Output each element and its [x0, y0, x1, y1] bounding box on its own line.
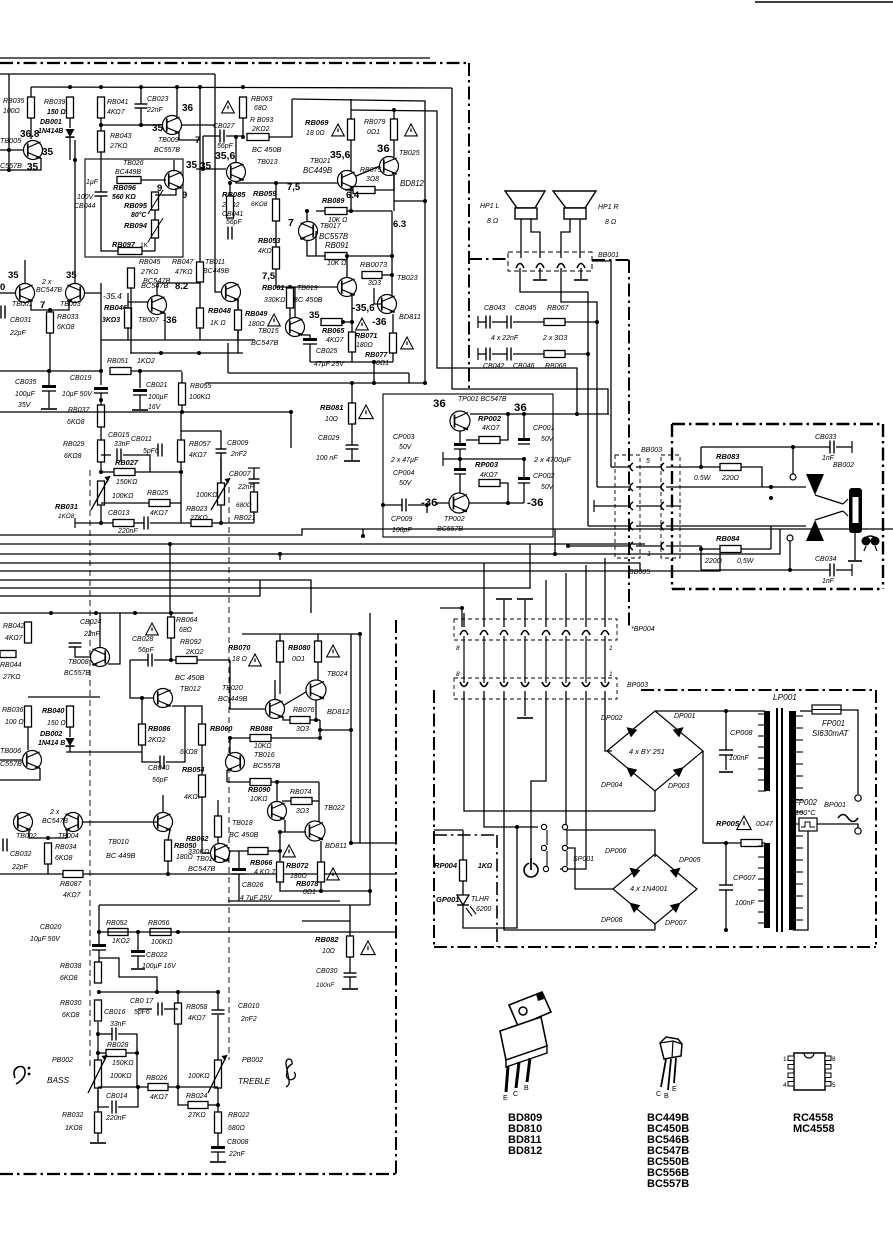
- transistor TB024: [306, 680, 326, 700]
- wire CB021 top: [139, 372, 141, 388]
- label RB039: [44, 99, 65, 106]
- svg-text:RB084: RB084: [716, 534, 740, 543]
- wire cb008 b: [217, 1152, 219, 1161]
- junction rb079 rail: [392, 108, 396, 112]
- svg-text:35: 35: [309, 310, 320, 321]
- label BC547B tb014: [188, 864, 216, 873]
- resistor RB063: [240, 97, 247, 118]
- wire RB055 top: [181, 372, 183, 383]
- wire bridge1 bot: [654, 791, 656, 811]
- ground gnd CB035: [41, 408, 57, 410]
- connector BB001: [508, 252, 592, 271]
- label CP009: [391, 516, 412, 523]
- warning triangle warning rb077: [401, 337, 414, 349]
- label TO-92 pins: [656, 1086, 677, 1100]
- capacitor CB035: [42, 385, 56, 391]
- label 9 b: [182, 190, 187, 201]
- svg-text:BP003: BP003: [627, 682, 648, 689]
- wire RB035 bot: [30, 118, 32, 139]
- label CP008 v: [729, 755, 749, 762]
- resistor RB055: [179, 383, 186, 405]
- wire spk R lead1: [561, 219, 570, 258]
- page edge top right: [755, 1, 893, 3]
- label RB097 val: [140, 242, 149, 249]
- label RB029: [63, 441, 84, 448]
- label RB049 v: [248, 321, 265, 328]
- label RB052 v: [112, 938, 130, 945]
- svg-text:220Ω: 220Ω: [721, 475, 740, 482]
- label 8.2: [175, 281, 188, 292]
- label RB059 v: [251, 201, 268, 208]
- junction rb059 top: [274, 181, 278, 185]
- svg-text:1KΩ: 1KΩ: [478, 863, 493, 870]
- capacitor CP008: [719, 750, 733, 755]
- wire tb019 col: [346, 256, 348, 277]
- wire bp004 up1: [463, 613, 465, 627]
- svg-text:35: 35: [186, 160, 198, 171]
- label RB033: [57, 314, 78, 321]
- wire tp001 em: [459, 431, 461, 443]
- resistor RB065: [321, 319, 342, 326]
- wire bb001 gnd4: [580, 268, 582, 279]
- svg-text:TB025: TB025: [399, 150, 420, 157]
- label 36.8: [20, 129, 40, 140]
- label DP007: [665, 920, 687, 927]
- wire rb026 l: [98, 1086, 148, 1088]
- wire DB001 bot: [69, 138, 71, 160]
- label SP001: [573, 856, 594, 863]
- wire tp002 caps: [459, 449, 461, 468]
- svg-text:TB006: TB006: [0, 747, 21, 755]
- wire cb033 drop: [792, 447, 794, 474]
- wire vert x215: [214, 74, 216, 125]
- svg-text:BD811: BD811: [325, 841, 347, 850]
- resistor RB071: [349, 332, 356, 352]
- svg-text:-35.4: -35.4: [103, 292, 122, 301]
- BB003 wires 3: [615, 505, 681, 507]
- BB003 pin pair 5: [630, 542, 664, 550]
- label RB093: [250, 117, 273, 124]
- label RB066: [250, 859, 273, 867]
- label CB023 value: [146, 107, 163, 114]
- label RB065 v: [322, 327, 345, 335]
- wire cb015 link: [101, 454, 111, 456]
- transistor TP002: [449, 493, 469, 513]
- svg-text:RB039: RB039: [44, 99, 65, 106]
- svg-text:RB044: RB044: [0, 662, 21, 669]
- wire rp004 t: [462, 830, 464, 860]
- resistor RB045: [128, 268, 135, 288]
- wire rb021 bot: [253, 512, 255, 523]
- connector pin BP003 pin 4: [521, 682, 529, 687]
- resistor RB096: [117, 177, 141, 184]
- label RB072: [286, 862, 308, 870]
- svg-text:BC557B: BC557B: [154, 147, 180, 154]
- wire bb003 in1: [611, 466, 615, 468]
- junction out bus: [289, 410, 293, 414]
- junction rb084 l: [699, 547, 703, 551]
- ground gnd cb022: [131, 968, 145, 970]
- junction tb019 em node: [350, 320, 354, 324]
- label RB0073: [360, 260, 388, 269]
- mains section divider h: [434, 834, 497, 836]
- svg-text:-35,6: -35,6: [352, 303, 375, 314]
- svg-text:2KΩ2: 2KΩ2: [185, 649, 204, 656]
- svg-text:RB050: RB050: [174, 842, 196, 850]
- junction rb090 r: [275, 780, 279, 784]
- wire supply line top: [0, 57, 430, 59]
- wire tb015 em: [303, 335, 310, 338]
- svg-text:CB028: CB028: [132, 636, 153, 643]
- label CB023: [147, 96, 168, 103]
- svg-text:CB008: CB008: [227, 1139, 248, 1146]
- label DP003: [668, 783, 689, 790]
- wire tb018 em node: [284, 820, 286, 832]
- svg-text:RB033: RB033: [57, 314, 78, 321]
- label CP007 v: [735, 900, 755, 907]
- wire tb014-rb066: [230, 850, 248, 852]
- wire cp008 b: [725, 755, 727, 770]
- svg-text:C557B: C557B: [0, 162, 22, 170]
- svg-text:PB002: PB002: [242, 1057, 263, 1064]
- wire tb014 em: [228, 851, 230, 861]
- label RB038: [60, 963, 81, 970]
- label CP004: [393, 470, 414, 477]
- svg-text:4KΩ7: 4KΩ7: [107, 109, 126, 116]
- label RB031: [55, 502, 78, 511]
- wire rb0073 r: [382, 274, 392, 276]
- ground gnd bp004 3: [496, 598, 512, 600]
- wire rb075 l: [345, 189, 353, 191]
- label TB005: [0, 137, 21, 145]
- wire rb046 b: [127, 328, 129, 340]
- tick mid gnd: [442, 452, 444, 466]
- wire cb033 row: [701, 446, 830, 448]
- wire bus 3: [0, 529, 780, 554]
- resistor RB038: [95, 962, 102, 983]
- svg-text:TB010: TB010: [108, 839, 129, 846]
- wire RB055 bot: [181, 405, 183, 412]
- label 100K treble: [188, 1073, 210, 1080]
- capacitor CB015: [117, 449, 121, 462]
- transistor TB015: [286, 318, 305, 337]
- svg-text:27KΩ: 27KΩ: [189, 515, 208, 522]
- svg-text:6KΩ8: 6KΩ8: [180, 749, 198, 756]
- ground gnd sleeve: [848, 560, 862, 562]
- label RB036: [2, 707, 23, 714]
- label RB025: [147, 490, 168, 497]
- junction bp feed: [460, 606, 464, 610]
- resistor RB088: [250, 735, 271, 742]
- svg-text:6KΩ8: 6KΩ8: [55, 855, 73, 862]
- wire tb007 col row: [157, 283, 200, 288]
- label RB082: [315, 935, 339, 944]
- label CB028 v: [138, 647, 154, 654]
- label 2x bc547b ch2: [49, 809, 60, 816]
- wire pw3: [504, 691, 655, 930]
- label DP001: [674, 713, 695, 720]
- wire bb003 in2: [597, 486, 615, 488]
- wire vert x200: [199, 87, 201, 283]
- label TB008: [68, 659, 89, 666]
- label CB011: [131, 436, 152, 443]
- label BB002: [833, 462, 854, 469]
- label HP1 L: [480, 203, 500, 210]
- svg-text:RB097: RB097: [112, 240, 136, 249]
- wire out bus down: [290, 412, 292, 448]
- wire rb059 top stub: [275, 183, 277, 199]
- svg-text:RB057: RB057: [189, 441, 211, 448]
- label FP002: [794, 798, 818, 807]
- label CB028: [132, 636, 153, 643]
- warning triangle warning rb069: [332, 124, 345, 136]
- wire rb076 r: [310, 719, 320, 721]
- junction row353 a: [159, 351, 163, 355]
- resistor RB039: [67, 97, 74, 118]
- svg-text:TB007: TB007: [138, 317, 160, 324]
- label RB047 v: [175, 269, 193, 276]
- wire rb022 b: [217, 1133, 219, 1146]
- label RB068: [545, 363, 566, 370]
- resistor RB028: [106, 1050, 126, 1057]
- wire cb014 l: [98, 1088, 109, 1107]
- connector pin BP003 pin 5: [542, 682, 550, 687]
- junction bus d: [553, 552, 557, 556]
- BB003 pin pair 3: [630, 502, 664, 510]
- svg-text:100KΩ: 100KΩ: [189, 394, 210, 401]
- resistor RP002: [479, 437, 500, 444]
- svg-text:4KΩ7: 4KΩ7: [482, 425, 501, 432]
- svg-text:35: 35: [42, 147, 54, 158]
- transistor TB017: [299, 222, 318, 241]
- wire tb019 em: [351, 295, 353, 332]
- svg-text:100pF: 100pF: [392, 527, 412, 534]
- label CB020: [40, 924, 61, 931]
- label 220 b: [704, 558, 723, 565]
- svg-text:100KΩ: 100KΩ: [110, 1073, 132, 1080]
- label RB042: [3, 623, 24, 630]
- label RB062 v: [188, 849, 209, 856]
- wire circle2 drop: [789, 541, 791, 570]
- wire rb078 bot: [320, 882, 322, 891]
- connector pin BP004 pin 6: [562, 631, 570, 636]
- svg-text:18 0Ω: 18 0Ω: [306, 130, 325, 137]
- svg-text:10KΩ: 10KΩ: [254, 743, 272, 750]
- label RB039 value: [47, 109, 66, 116]
- label BC449B tb021: [303, 166, 332, 175]
- label 2x3R3: [542, 335, 567, 342]
- svg-text:35,6: 35,6: [215, 151, 236, 162]
- thermal fuse FP002: [799, 818, 817, 831]
- label CP001 v: [541, 436, 555, 443]
- frame top border: [0, 62, 467, 64]
- junction bb003 5: [566, 544, 570, 548]
- wire bb003 stub3: [594, 505, 615, 507]
- wire tb023 base lead: [374, 288, 381, 304]
- wire BP004-BP003 col 1: [463, 636, 465, 683]
- svg-text:BC 449B: BC 449B: [218, 694, 248, 703]
- svg-text:0: 0: [0, 282, 5, 293]
- package DIP-8 body: [794, 1053, 825, 1090]
- label 6200: [476, 906, 491, 913]
- junction row353 b: [197, 351, 201, 355]
- wire TB007 row bot: [101, 339, 255, 341]
- wire RB035 top: [30, 87, 32, 97]
- svg-text:CB019: CB019: [70, 375, 91, 382]
- svg-text:CB035: CB035: [15, 379, 36, 386]
- junction rb056 l: [136, 930, 140, 934]
- svg-text:4KΩ7: 4KΩ7: [480, 472, 499, 479]
- svg-text:CP008: CP008: [730, 728, 753, 737]
- wire cb040 l: [142, 752, 160, 762]
- wire v701: [700, 447, 702, 467]
- svg-text:47KΩ: 47KΩ: [175, 269, 193, 276]
- label RB085 v: [221, 202, 240, 209]
- svg-text:2nF2: 2nF2: [230, 451, 247, 458]
- svg-text:DP003: DP003: [668, 783, 689, 790]
- label CB019: [70, 375, 91, 382]
- label -36 tb023: [372, 317, 387, 328]
- label RB054: [182, 766, 204, 774]
- wire BP004-BP003 col 4: [524, 636, 526, 683]
- svg-text:RB053: RB053: [258, 237, 280, 245]
- svg-text:RB031: RB031: [55, 502, 78, 511]
- label TB026: [123, 160, 144, 167]
- capacitor CP003: [454, 443, 466, 449]
- label RB038 v: [60, 975, 78, 982]
- switch SP001 contact c1: [543, 866, 548, 871]
- wire rb027 wires: [101, 471, 114, 473]
- wire rb070/rb080 feed: [242, 633, 360, 635]
- label BC450B tb019: [293, 295, 323, 304]
- wire spk L lead2: [531, 219, 540, 258]
- wire TB026 col: [173, 160, 175, 171]
- wire tone top rail: [99, 904, 370, 906]
- svg-text:BB002: BB002: [833, 462, 854, 469]
- wire TB001 col: [24, 260, 26, 283]
- wire cb016 l: [98, 1033, 112, 1035]
- label RP005: [716, 819, 740, 828]
- wire rb024 r: [208, 1104, 218, 1106]
- svg-text:RB059: RB059: [253, 189, 277, 198]
- svg-text:DP007: DP007: [665, 920, 687, 927]
- wire rb084 l: [681, 546, 720, 549]
- wire rb083 l: [681, 466, 720, 468]
- wire fp002 down: [796, 831, 808, 930]
- wire pw4: [524, 691, 526, 716]
- connector BB003 left: [615, 455, 640, 558]
- label CB032: [10, 851, 31, 858]
- wire bb003 in4: [588, 525, 615, 527]
- label RB043 value: [109, 143, 128, 150]
- frame stub to BB001: [469, 258, 508, 260]
- svg-text:CB026: CB026: [242, 882, 263, 889]
- wire rb048 b: [199, 328, 201, 340]
- resistor RB095: [152, 192, 159, 210]
- svg-text:100µF: 100µF: [148, 394, 168, 401]
- svg-text:100nF: 100nF: [316, 982, 335, 989]
- svg-text:2KΩ2: 2KΩ2: [147, 737, 166, 744]
- label BD812 ch2: [327, 707, 350, 716]
- wire rb054 bot: [202, 797, 214, 853]
- wire fuse right: [841, 710, 858, 794]
- wire cb013 r: [150, 522, 191, 524]
- wire rb083 r: [741, 467, 762, 487]
- svg-text:35: 35: [27, 162, 39, 173]
- junction ch2 b: [133, 611, 137, 615]
- label BC449B tb010: [106, 851, 136, 860]
- wire CB021 gnd: [139, 395, 141, 409]
- connector BB003 right: [661, 455, 680, 558]
- junction rb024 r: [216, 1103, 220, 1107]
- wire tb021-tb025 base: [356, 166, 380, 176]
- label 1uF: [86, 179, 99, 186]
- resistor RB060: [199, 724, 206, 745]
- label RB035: [3, 98, 24, 105]
- label BD811: [399, 312, 421, 321]
- resistor RB050: [165, 840, 172, 861]
- label RB053 v: [258, 248, 277, 255]
- wire rb088 l: [230, 737, 250, 739]
- wire tb011 em drop: [237, 340, 239, 353]
- label RB089 v: [328, 217, 347, 224]
- wire fp002 wire: [817, 824, 858, 828]
- svg-text:1: 1: [609, 645, 613, 652]
- transformer TP coil secondary top: [758, 711, 770, 791]
- label DP005: [679, 857, 700, 864]
- BB002 box right: [882, 424, 884, 589]
- label BP004: [631, 626, 655, 633]
- switch SP001 levers: [547, 830, 567, 866]
- label RB028 v: [112, 1060, 134, 1067]
- wire BP004-BP003 col 7: [585, 636, 587, 683]
- capacitor CB042: [486, 348, 490, 361]
- wire RB096 right: [141, 179, 166, 181]
- label RB086 v: [147, 737, 166, 744]
- wire vert x392: [391, 211, 393, 299]
- BB003 pin pair 2: [630, 483, 664, 491]
- label RB061 v: [264, 297, 285, 304]
- connector pin BP004 pin 5: [542, 631, 550, 636]
- wire tone step: [99, 958, 157, 992]
- wire cb040 r: [166, 706, 185, 762]
- junction cb010 top: [216, 990, 220, 994]
- label BC547B TB015b: [143, 276, 171, 285]
- label RB076 v: [296, 726, 309, 733]
- label RB079: [364, 119, 385, 126]
- wire RB039 bot: [69, 118, 71, 128]
- svg-text:RB070: RB070: [228, 644, 250, 652]
- svg-text:4 x BY 251: 4 x BY 251: [629, 747, 665, 756]
- label RB071: [355, 332, 377, 340]
- label 56pF: [217, 143, 234, 150]
- wire output rail: [205, 382, 425, 384]
- transistor TP001: [450, 411, 470, 431]
- label RB087: [60, 881, 82, 888]
- resistor RB029: [98, 440, 105, 462]
- wire bus right v1: [554, 529, 556, 554]
- label 4x22nF: [491, 335, 519, 342]
- wire rb029 bot: [100, 462, 102, 470]
- wire x101 low: [100, 393, 102, 440]
- capacitor CB025: [303, 338, 317, 344]
- svg-text:180Ω: 180Ω: [176, 854, 193, 861]
- BB003 wires 1: [615, 466, 681, 468]
- svg-text:TLHR: TLHR: [471, 896, 489, 903]
- junction rb026 r: [176, 1085, 180, 1089]
- wire inner box left: [227, 343, 229, 373]
- label RB063 v: [254, 105, 267, 112]
